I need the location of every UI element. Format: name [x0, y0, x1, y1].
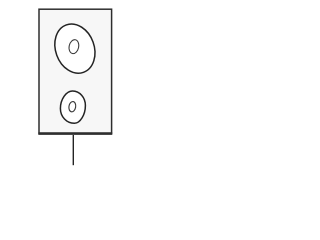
panel box bottom edge (thicker): [38, 132, 112, 135]
panel box: [39, 9, 112, 133]
leader line: [72, 135, 74, 165]
part thumbnail drawing: [0, 0, 150, 173]
grommet G1 outer ellipse (top): [48, 18, 102, 79]
grommet G2 inner hole (bottom): [68, 101, 76, 112]
grommet G1 inner hole (top): [68, 39, 80, 55]
grommet G2 outer ellipse (bottom): [60, 91, 85, 123]
